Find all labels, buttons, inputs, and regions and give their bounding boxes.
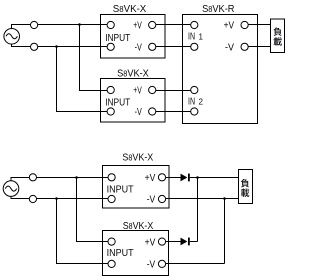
wire V1 top lead bbox=[12, 25, 31, 29]
svg-text:+V: +V bbox=[145, 173, 156, 184]
wire U2 +V to U3 IN2 top bbox=[156, 90, 191, 92]
junction J6 bbox=[223, 197, 226, 200]
wire U4 -V to load LD2 bbox=[166, 198, 239, 200]
wire J4 down to U5 INPUT bottom bbox=[57, 199, 109, 264]
svg-text:-V: -V bbox=[135, 42, 142, 53]
svg-text:INPUT: INPUT bbox=[107, 184, 134, 195]
svg-text:INPUT: INPUT bbox=[107, 248, 134, 259]
pin U2 input top bbox=[107, 86, 114, 93]
svg-text:2: 2 bbox=[199, 97, 204, 106]
pin U2 input bottom bbox=[107, 108, 114, 115]
svg-text:S8VK-X: S8VK-X bbox=[122, 153, 153, 164]
wire U2 -V to U3 IN2 bottom bbox=[156, 111, 191, 113]
junction J5 bbox=[196, 176, 199, 179]
wire J3 down to U5 INPUT top bbox=[77, 178, 109, 242]
terminal T1 bbox=[30, 21, 37, 28]
wire J1 down to U2 INPUT top bbox=[80, 25, 108, 91]
terminal T2 bbox=[30, 43, 37, 50]
power supply U2 S8VK-X bbox=[101, 79, 166, 123]
pin U5 -V bbox=[158, 260, 165, 267]
pin U5 input top bbox=[108, 238, 115, 245]
svg-text:-V: -V bbox=[225, 42, 234, 53]
diode D2 bbox=[181, 238, 190, 246]
pin U5 +V bbox=[158, 238, 165, 245]
terminal T3 bbox=[29, 174, 36, 181]
label LD1 load text 載 bbox=[274, 37, 282, 45]
wire D2 to junction J5 bbox=[190, 241, 198, 243]
pin U3 -V bbox=[241, 43, 248, 50]
AC source V2 bbox=[3, 181, 19, 197]
svg-text:-V: -V bbox=[135, 107, 142, 118]
wire V2 bottom lead bbox=[11, 196, 29, 198]
power supply U1 S8VK-X bbox=[101, 15, 166, 59]
wire T3 to U4 INPUT top bbox=[37, 177, 109, 179]
wire U3 -V to load LD1 bbox=[248, 46, 270, 48]
pin U3 IN1 top bbox=[191, 21, 198, 28]
pin U4 input bottom bbox=[108, 195, 115, 202]
svg-text:+V: +V bbox=[133, 21, 142, 32]
pin U1 input bottom bbox=[107, 43, 114, 50]
pin U3 IN1 bottom bbox=[191, 43, 198, 50]
label LD2 load text 載 bbox=[241, 189, 249, 197]
wire T4 to U4 INPUT bottom bbox=[37, 198, 109, 200]
junction J3 bbox=[75, 176, 78, 179]
wire J2 down to U2 INPUT bottom bbox=[57, 47, 108, 112]
svg-text:IN: IN bbox=[188, 32, 195, 43]
svg-text:S8VK-R: S8VK-R bbox=[202, 4, 234, 15]
pin U1 input top bbox=[107, 21, 114, 28]
wire J5 down to diode D2 output bbox=[197, 178, 199, 242]
svg-text:1: 1 bbox=[199, 33, 204, 42]
wire D1 to load LD2 bbox=[190, 177, 239, 179]
pin U4 input top bbox=[108, 174, 115, 181]
load LD1 box bbox=[271, 19, 285, 53]
pin U3 +V bbox=[241, 21, 248, 28]
svg-text:+V: +V bbox=[224, 21, 235, 32]
wire T2 to U1 INPUT bottom bbox=[38, 46, 107, 48]
svg-text:S8VK-X: S8VK-X bbox=[123, 221, 154, 232]
redundancy module U3 S8VK-R bbox=[183, 15, 258, 124]
pin U3 IN2 bottom bbox=[191, 108, 198, 115]
wire U1 -V to U3 IN1 bottom bbox=[156, 46, 191, 48]
wire U3 +V to load LD1 bbox=[248, 24, 270, 26]
wire J6 down to U5 -V level bbox=[224, 199, 226, 264]
svg-text:S8VK-X: S8VK-X bbox=[113, 4, 147, 15]
svg-text:INPUT: INPUT bbox=[105, 98, 130, 109]
wire V2 top lead bbox=[11, 178, 29, 181]
svg-text:S8VK-X: S8VK-X bbox=[117, 68, 149, 79]
pin U2 +V bbox=[149, 86, 156, 93]
label LD1 load text 負 bbox=[273, 27, 281, 35]
pin U3 IN2 top bbox=[191, 86, 198, 93]
wire U5 +V to diode D2 bbox=[166, 241, 181, 243]
load LD2 box bbox=[239, 170, 253, 204]
wire V1 bottom lead bbox=[12, 44, 31, 46]
AC source V1 bbox=[4, 29, 20, 45]
svg-text:+V: +V bbox=[145, 237, 156, 248]
svg-text:IN: IN bbox=[188, 96, 195, 107]
diode D1 bbox=[181, 174, 190, 182]
wire U4 +V to diode D1 bbox=[166, 177, 181, 179]
svg-text:INPUT: INPUT bbox=[105, 33, 130, 44]
wire U1 +V to U3 IN1 top bbox=[156, 24, 191, 26]
wire T1 to U1 INPUT top bbox=[38, 24, 107, 26]
junction J4 bbox=[55, 197, 58, 200]
wire U5 -V to junction J6 bbox=[166, 263, 225, 265]
label LD2 load text 負 bbox=[241, 179, 249, 187]
pin U5 input bottom bbox=[108, 260, 115, 267]
power supply U4 S8VK-X bbox=[103, 166, 170, 209]
junction J1 bbox=[78, 23, 81, 26]
power supply U5 S8VK-X bbox=[103, 231, 169, 276]
pin U1 +V bbox=[149, 21, 156, 28]
pin U2 -V bbox=[149, 108, 156, 115]
svg-text:-V: -V bbox=[147, 260, 156, 271]
junction J2 bbox=[55, 45, 58, 48]
pin U4 +V bbox=[158, 174, 165, 181]
pin U1 -V bbox=[149, 43, 156, 50]
svg-text:-V: -V bbox=[147, 195, 156, 206]
terminal T4 bbox=[29, 195, 36, 202]
pin U4 -V bbox=[158, 195, 165, 202]
svg-text:+V: +V bbox=[133, 86, 142, 97]
